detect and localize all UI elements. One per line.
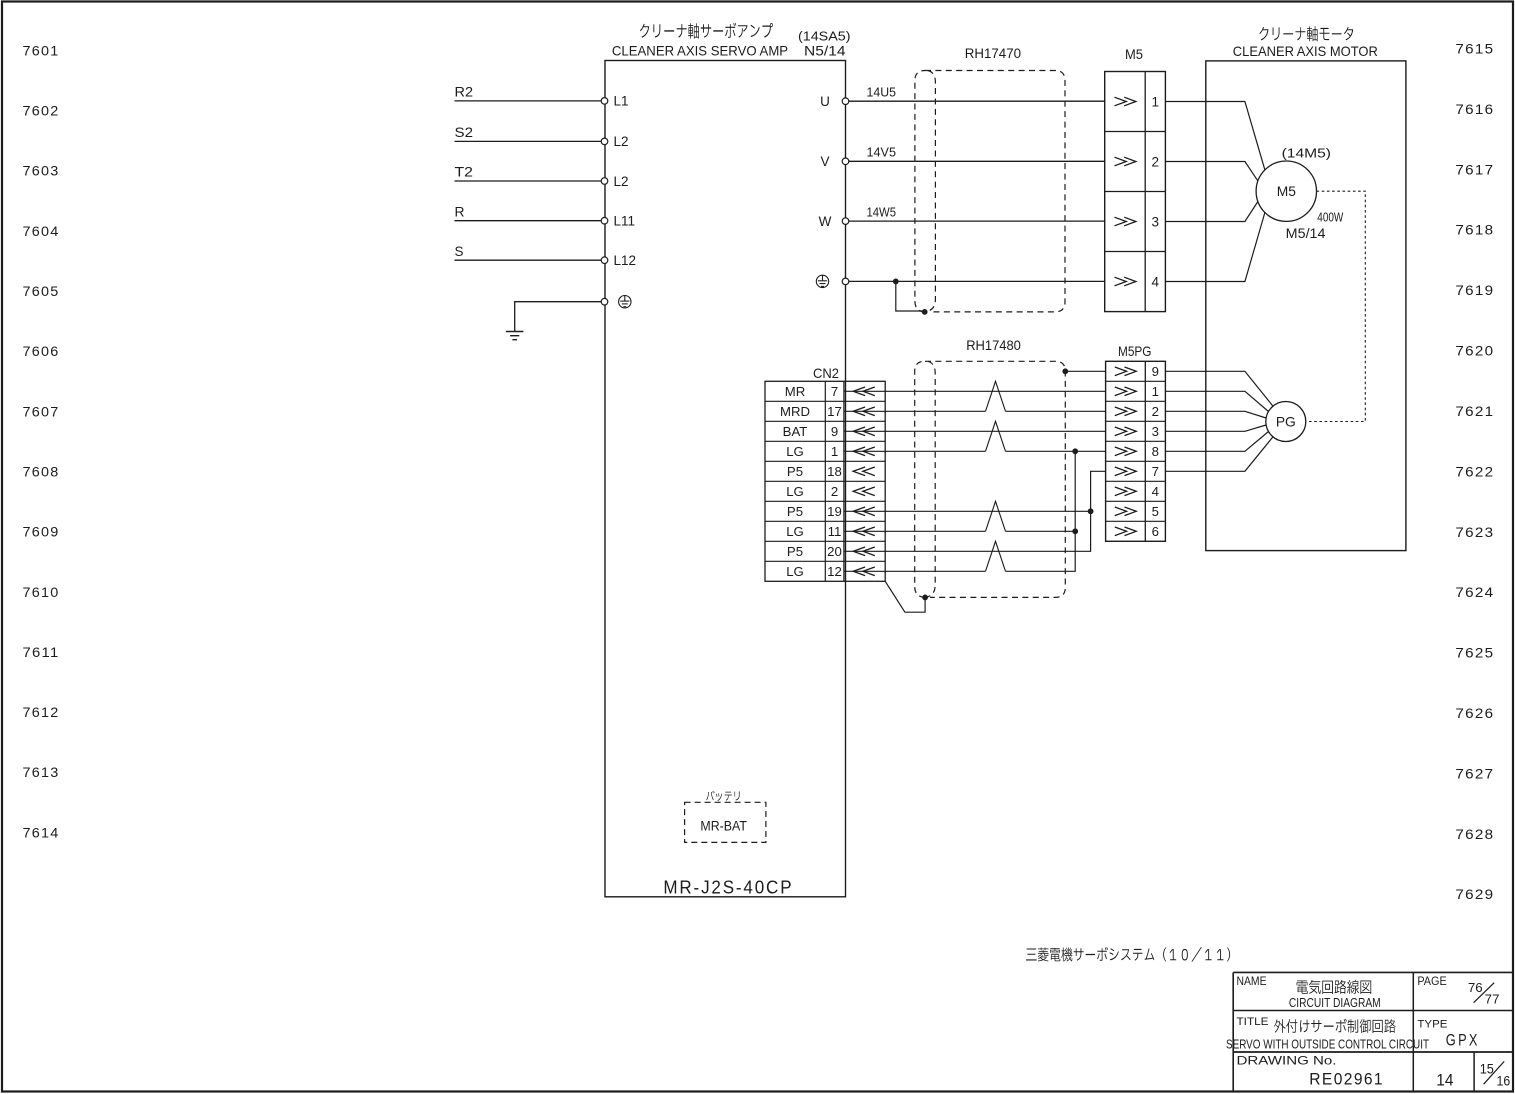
terminal L1 [601,98,608,105]
svg-text:MRD: MRD [780,404,810,419]
junction cable shield RH17470 [922,309,928,315]
junction P5 net [1088,508,1094,514]
svg-text:7603: 7603 [23,163,60,179]
label MR-BAT [700,818,747,833]
svg-text:L1: L1 [614,94,629,109]
wire M5 pin 2 to motor [1165,162,1258,181]
label バッテリ [706,791,739,801]
cable RH17480 (shielded, dashed) [915,361,1066,597]
svg-text:2: 2 [1152,404,1159,419]
label 400W [1317,210,1344,225]
svg-text:P5: P5 [787,544,803,559]
label M5/14 [1286,226,1326,241]
svg-text:LG: LG [786,444,804,459]
label クリーナ軸サーボアンプ [640,23,773,39]
sheet fraction 15/16 [1480,1061,1511,1088]
pin label L2 [614,134,629,149]
wire PE out [849,280,1106,282]
svg-text:T2: T2 [455,165,474,180]
wire M5PG pin 7 to PG [1165,437,1273,472]
connector M5PG (pins 9 1 2 3 8 7 4 5 6) [1106,361,1166,541]
terminal L2 [601,138,608,145]
svg-text:77: 77 [1485,992,1500,1007]
svg-text:7614: 7614 [23,824,60,840]
svg-text:MR-J2S-40CP: MR-J2S-40CP [663,877,793,898]
svg-text:1: 1 [1152,94,1160,109]
page fraction 76/77 [1468,980,1500,1007]
svg-text:7609: 7609 [23,524,60,540]
svg-text:L12: L12 [614,253,637,268]
wire CN2-7 MR to M5PG-1 [844,390,1106,392]
svg-text:7627: 7627 [1455,765,1494,781]
svg-text:M5: M5 [1277,184,1296,199]
svg-text:BAT: BAT [783,424,808,439]
svg-text:MR: MR [785,384,806,399]
svg-text:M5PG: M5PG [1118,344,1152,359]
wire CN2-12 LG riser [844,451,1075,571]
svg-text:7606: 7606 [23,343,60,359]
svg-text:7605: 7605 [23,283,60,299]
svg-text:7623: 7623 [1455,524,1494,540]
label CLEANER AXIS MOTOR [1233,44,1378,59]
svg-text:(14SA5): (14SA5) [798,29,851,44]
svg-text:PAGE: PAGE [1417,976,1447,988]
svg-text:SERVO WITH OUTSIDE CONTROL CIR: SERVO WITH OUTSIDE CONTROL CIRCUIT [1226,1036,1429,1051]
net label R [455,204,465,219]
wire CN2-1 LG to M5PG-8 [844,450,1106,452]
dashed shaft link M5-PG [1306,191,1365,421]
svg-text:P5: P5 [787,464,803,479]
junction LG net 2 [1072,528,1078,534]
label N5/14 [804,44,846,59]
svg-text:7619: 7619 [1455,282,1494,298]
pin label V [820,154,829,169]
svg-text:L2: L2 [614,174,629,189]
svg-text:11: 11 [828,524,842,539]
motor M5 (14M5) [1256,161,1316,221]
wire R2 [455,100,602,102]
svg-text:RE02961: RE02961 [1309,1070,1384,1089]
svg-text:5: 5 [1152,504,1159,519]
terminal L11 [601,217,608,224]
svg-text:2: 2 [831,484,838,499]
net label 14U5 [867,85,897,100]
label NAME [1237,976,1267,988]
label RH17480 [966,338,1021,353]
wire R [455,220,602,222]
svg-text:CIRCUIT DIAGRAM: CIRCUIT DIAGRAM [1289,995,1381,1010]
pin label L12 [614,253,637,268]
wire CN2 shell to shield [885,581,925,612]
terminal V [842,158,849,165]
label M5 [1125,47,1143,62]
label TYPE [1417,1019,1447,1031]
label PAGE [1417,976,1447,988]
svg-text:7621: 7621 [1455,403,1494,419]
svg-text:14W5: 14W5 [867,205,897,220]
svg-text:7618: 7618 [1455,222,1494,238]
svg-text:M5/14: M5/14 [1286,226,1326,241]
connector CN2 (MR MRD BAT LG P5 pins) [765,381,885,581]
svg-text:14U5: 14U5 [867,85,897,100]
svg-text:V: V [820,154,829,169]
wire M5 pin 3 to motor [1165,202,1258,222]
svg-text:7601: 7601 [23,42,60,58]
svg-text:7608: 7608 [23,463,60,479]
svg-text:RH17470: RH17470 [965,46,1022,61]
wire CN2-19 P5 [844,510,1091,512]
svg-text:7613: 7613 [23,764,60,780]
svg-text:CN2: CN2 [813,366,839,381]
sheet number 14 [1436,1072,1453,1090]
svg-text:12: 12 [827,564,842,579]
svg-text:7616: 7616 [1455,101,1494,117]
svg-text:9: 9 [831,424,838,439]
svg-text:7624: 7624 [1455,584,1494,600]
net label R2 [455,85,474,100]
wire shield to M5PG-9 [1065,370,1105,372]
pin label L2 [614,174,629,189]
terminal W [842,218,849,225]
wire M5 pin 4 to motor [1165,213,1265,282]
svg-text:7629: 7629 [1455,886,1494,902]
label DRAWING No. [1237,1054,1337,1068]
svg-text:NAME: NAME [1237,976,1267,988]
svg-text:N5/14: N5/14 [804,44,846,59]
wire CN2-11 LG [844,530,1075,532]
wire S [455,259,602,261]
pin label U [820,94,830,109]
wire S2 [455,140,602,142]
net label S [455,244,464,259]
terminal U [842,98,849,105]
motor box (CLEANER AXIS MOTOR) [1206,61,1406,551]
wire M5PG pin 9 to PG [1165,371,1273,406]
svg-text:18: 18 [827,464,842,479]
junction shield RH17480 [1062,368,1068,374]
terminal PE (amp left) [601,298,608,305]
twisted pair BAT/LG [986,421,1006,451]
svg-text:TYPE: TYPE [1417,1019,1447,1031]
svg-text:2: 2 [1152,154,1160,169]
wire CN2-9 BAT to M5PG-3 [844,430,1106,432]
label クリーナ軸モータ [1259,26,1353,41]
svg-text:7602: 7602 [23,103,60,119]
svg-text:7625: 7625 [1455,645,1494,661]
label 三菱電機サーボシステム(10/11) [1026,947,1230,962]
label (14SA5) [798,29,851,44]
net label T2 [455,165,474,180]
svg-text:RH17480: RH17480 [966,338,1021,353]
svg-text:17: 17 [827,404,842,419]
label CLEANER AXIS SERVO AMP [612,44,788,59]
label CIRCUIT DIAGRAM [1289,995,1381,1010]
protective earth symbol (amp output) [816,275,828,287]
label 外付けサーボ制御回路 [1274,1019,1396,1033]
svg-text:7611: 7611 [23,644,60,660]
wire M5PG pin 3 to PG [1165,425,1266,431]
svg-text:1: 1 [1152,384,1159,399]
label M5PG [1118,344,1152,359]
twisted pair MR/MRD [986,381,1006,411]
label TITLE [1237,1016,1269,1028]
svg-text:7617: 7617 [1455,161,1494,177]
svg-text:4: 4 [1152,484,1159,499]
svg-text:M5: M5 [1125,47,1143,62]
label CN2 [813,366,839,381]
svg-text:16: 16 [1497,1074,1511,1089]
svg-text:7622: 7622 [1455,463,1494,479]
svg-text:S2: S2 [455,125,474,140]
svg-text:U: U [820,94,830,109]
pin label L1 [614,94,629,109]
servo amplifier box 14SA5 (MR-J2S-40CP) [605,61,846,897]
junction LG net [1072,448,1078,454]
wire shield drain (cable RH17470) [896,281,925,312]
svg-text:L2: L2 [614,134,629,149]
svg-text:7607: 7607 [23,403,60,419]
title block frame [1233,972,1513,1092]
svg-text:LG: LG [786,524,804,539]
label RH17470 [965,46,1022,61]
label 電気回路線図 [1297,980,1372,994]
cable RH17470 (shielded, dashed) [915,71,1065,312]
svg-text:TITLE: TITLE [1237,1016,1269,1028]
junction on PE wire [893,279,899,285]
svg-text:R: R [455,204,465,219]
svg-text:7: 7 [1152,464,1159,479]
svg-text:76: 76 [1468,980,1483,995]
svg-text:7: 7 [831,384,838,399]
wire 14U5 [849,100,1106,102]
battery MR-BAT (dashed) [685,802,766,842]
wire M5PG pin 1 to PG [1165,391,1268,411]
label MR-J2S-40CP [663,877,793,898]
svg-text:7628: 7628 [1455,826,1494,842]
svg-text:7626: 7626 [1455,705,1494,721]
terminal PE out [842,278,849,285]
net labels 7601-7614 (left rail) [23,42,60,840]
svg-text:L11: L11 [614,214,636,229]
svg-text:3: 3 [1152,424,1159,439]
svg-text:9: 9 [1152,364,1159,379]
svg-text:7610: 7610 [23,584,60,600]
svg-text:S: S [455,244,464,259]
label SERVO WITH OUTSIDE CONTROL CIRCUIT [1226,1036,1429,1051]
svg-text:7604: 7604 [23,223,60,239]
wire M5PG pin 2 to PG [1165,411,1266,418]
svg-text:(14M5): (14M5) [1282,146,1331,161]
svg-text:14: 14 [1436,1072,1453,1090]
wire T2 [455,180,602,182]
connector M5 (pins 1-4) [1105,72,1166,312]
svg-text:1: 1 [831,444,838,459]
twisted pair P5/LG (20/12) [986,541,1006,571]
encoder PG [1266,402,1306,442]
svg-text:15: 15 [1480,1062,1494,1077]
label GPX [1446,1032,1480,1050]
net label S2 [455,125,474,140]
svg-text:MR-BAT: MR-BAT [700,818,747,833]
pin label W [819,214,832,229]
svg-text:3: 3 [1152,214,1160,229]
ground [506,332,524,340]
svg-text:400W: 400W [1317,210,1344,225]
wire M5 pin 1 to motor [1165,102,1265,170]
terminal L2 [601,178,608,185]
svg-text:CLEANER AXIS SERVO AMP: CLEANER AXIS SERVO AMP [612,44,788,59]
net label 14V5 [867,145,897,160]
svg-text:CLEANER AXIS MOTOR: CLEANER AXIS MOTOR [1233,44,1378,59]
svg-text:DRAWING No.: DRAWING No. [1237,1054,1337,1068]
svg-text:19: 19 [827,504,842,519]
svg-text:8: 8 [1152,444,1159,459]
wire 14V5 [849,160,1106,162]
twisted pair P5/LG (19/11) [986,501,1006,531]
wire M5PG pin 8 to PG [1165,432,1268,452]
svg-text:20: 20 [827,544,842,559]
terminal L12 [601,257,608,264]
svg-text:7615: 7615 [1455,41,1494,57]
svg-text:LG: LG [786,564,804,579]
svg-text:6: 6 [1152,524,1159,539]
svg-text:4: 4 [1152,274,1160,289]
svg-text:LG: LG [786,484,804,499]
svg-text:7620: 7620 [1455,343,1494,359]
svg-text:7612: 7612 [23,704,60,720]
svg-text:W: W [819,214,832,229]
wire 14W5 [849,220,1106,222]
svg-text:14V5: 14V5 [867,145,897,160]
drawing number RE02961 [1309,1070,1384,1089]
svg-text:PG: PG [1276,414,1296,429]
wire PE to ground [515,302,602,332]
svg-text:GPX: GPX [1446,1032,1480,1050]
svg-text:R2: R2 [455,85,474,100]
net labels 7615-7629 (right rail) [1455,41,1494,903]
pin label L11 [614,214,636,229]
wire CN2-17 MRD to M5PG-2 [844,410,1106,412]
svg-text:P5: P5 [787,504,803,519]
wire CN2-20 P5 to M5PG-7 [844,471,1106,551]
net label 14W5 [867,205,897,220]
protective earth symbol (amp left) [619,296,631,308]
junction cable shield RH17480 [922,595,928,601]
label (14M5) [1282,146,1331,161]
